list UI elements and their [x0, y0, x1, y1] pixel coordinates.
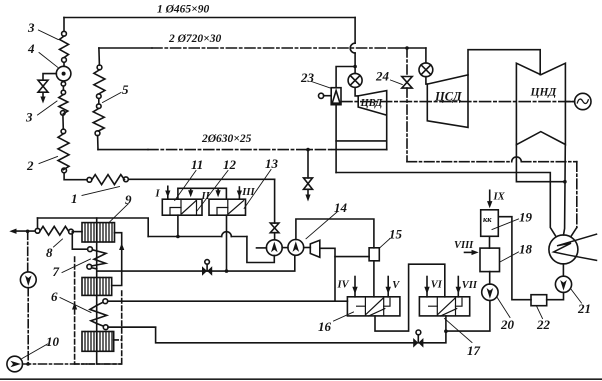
heater 9 hatched block	[82, 223, 115, 242]
element 5 lower zigzag	[93, 109, 104, 132]
leader label 3 upper	[38, 30, 58, 40]
wire feedwater vertical through heater group	[96, 218, 98, 364]
wire link to element 2	[62, 115, 64, 129]
wire reheat steam line 2	[99, 47, 152, 49]
element 8 zigzag	[40, 226, 69, 235]
condenser circle	[549, 235, 578, 264]
wire device 23 bypass drop	[335, 105, 337, 173]
arrow up on shell chain	[119, 243, 124, 250]
leader label 5	[103, 93, 122, 103]
element 7 zigzag	[92, 250, 107, 266]
wire IP stop valve to IP turbine	[426, 77, 427, 84]
node dot pump branch	[26, 230, 30, 234]
node circle bottom of element 6	[103, 325, 108, 330]
element 1 zigzag	[92, 175, 125, 185]
wire bypass branch to HP exhaust	[336, 140, 387, 142]
wire LP left downcomer	[516, 145, 563, 182]
wire heater 11 drain stub	[177, 215, 179, 236]
heater group bottom hatched block	[82, 332, 114, 352]
wire 15 bypass to trap shaft riser	[335, 256, 369, 258]
valve circle-X IP stop valve	[419, 63, 433, 77]
hop over line 2	[350, 43, 355, 53]
leader label 22	[537, 306, 543, 319]
leader label 6	[60, 298, 91, 313]
wire condensate line y179 to feed pump valve	[128, 178, 274, 180]
heater 16 tube diagonals	[366, 298, 385, 316]
stem of drain valve	[417, 335, 419, 343]
svg-text:2 Ø720×30: 2 Ø720×30	[168, 33, 221, 45]
wire main steam line 1	[64, 17, 355, 19]
turbine IP cylinder ЦСД	[427, 75, 468, 128]
element 5 upper zigzag	[94, 70, 105, 94]
heater 17 divider 1	[436, 297, 438, 316]
svg-text:9: 9	[125, 192, 132, 207]
wire junction to drain control valve	[423, 331, 446, 343]
wire shaft solid stub to generator	[565, 101, 574, 103]
svg-text:17: 17	[467, 343, 481, 358]
wire heater 9 shell right chain	[112, 233, 122, 286]
svg-text:3: 3	[25, 110, 33, 125]
leader label 21	[571, 289, 582, 304]
heater 17 baffles	[429, 298, 462, 306]
stem and actuator circle	[206, 264, 208, 271]
wire stub to bottom circle	[97, 324, 103, 327]
node dot header junction	[176, 235, 180, 239]
wire heater 12 drain	[226, 215, 228, 271]
wire drop to pump valve	[274, 179, 276, 223]
component 18 gland steam condenser	[480, 248, 500, 272]
wire valve 24 branch dash-dot down	[406, 48, 408, 77]
wire pump1 suction from drain header	[247, 237, 274, 263]
node dot heater 17 drain junction	[444, 329, 448, 333]
wire below PSB valve	[307, 189, 309, 195]
wire feedwater outlet line y218	[38, 218, 149, 237]
wire dashed bottom	[75, 363, 122, 365]
wire PSB branch down	[307, 150, 309, 178]
valve drain control filled bowtie	[413, 338, 423, 348]
node circle left of element 8	[35, 228, 40, 233]
valve bowtie on left branch	[38, 80, 48, 92]
arrow up on dashed bypass	[72, 303, 77, 310]
node circle middle2 of element 5	[97, 104, 102, 109]
arrow IX extraction	[489, 190, 491, 203]
element 6 zigzag	[90, 305, 107, 323]
wire condenser to pump 21	[562, 264, 564, 276]
arrow VI extraction	[426, 277, 428, 297]
wire drop element 5 to line 3	[97, 136, 99, 150]
wire 18 to pump 20	[489, 272, 491, 285]
component 15 feed valve	[369, 248, 379, 261]
svg-text:2: 2	[26, 158, 34, 173]
heater 16 HP heater body	[347, 297, 400, 316]
node circle stem end	[319, 93, 324, 98]
wire drive exhaust to heater 16 shell	[320, 248, 335, 301]
component 22 gland heater	[531, 295, 547, 306]
node dot PSB branch	[306, 148, 310, 152]
wire shaft stub left	[257, 247, 267, 249]
node circle bottom of element 2	[62, 168, 67, 173]
heater 17 tube diagonals	[438, 298, 457, 316]
turbine HP cylinder ЦВД	[358, 91, 387, 116]
svg-text:16: 16	[318, 319, 332, 334]
wire heater 17 drain	[445, 316, 447, 331]
wire branch left from element 4	[43, 74, 56, 81]
leader label 13	[244, 170, 271, 209]
wire drain line 9 shell to top of heater 16 line	[108, 300, 335, 302]
svg-text:ЦНД: ЦНД	[530, 87, 558, 99]
pump 2 feed pump	[288, 240, 304, 256]
valve bowtie above feed pump	[270, 223, 279, 233]
wire valve to pump 1	[274, 233, 276, 240]
wire drain element 6 to valve line	[108, 326, 156, 328]
leader label 8	[54, 239, 63, 247]
wire heater 16 drain U to heater 17 feed	[375, 264, 445, 331]
node dot condenser junction	[563, 180, 567, 184]
wire drop from line 1 to boiler chain	[63, 18, 65, 32]
node circle below element 4	[61, 82, 65, 86]
heater 11-12 dividers	[181, 199, 197, 215]
wire extraction II header	[178, 188, 227, 199]
leader label 7	[62, 259, 91, 273]
stem of device 23	[324, 95, 332, 97]
hop over LP downcomer	[512, 157, 522, 162]
leader label 3 lower	[38, 101, 58, 115]
leader label 4	[39, 53, 58, 68]
wire IP stop valve riser	[425, 48, 427, 63]
svg-text:24: 24	[375, 69, 390, 84]
wire LP drain line to pump 2 suction	[97, 255, 295, 271]
wire drain line to left heaters	[108, 327, 413, 343]
leader label 14	[306, 212, 337, 239]
leader label 16	[334, 312, 354, 321]
pump 20 circle	[482, 284, 498, 300]
wire dashed bypass left	[74, 257, 76, 364]
component 19 ejector KK	[481, 210, 499, 237]
node dot bottom junction	[26, 362, 30, 366]
condenser coil and cooling water	[554, 234, 597, 260]
node circle top of element 5	[97, 65, 102, 70]
svg-text:15: 15	[389, 227, 403, 242]
leader label 18	[500, 252, 519, 262]
leader label 24	[391, 80, 403, 85]
svg-text:13: 13	[265, 156, 279, 171]
wire heater 9 shell drain left link	[72, 232, 87, 250]
arrow VIII into 18	[465, 251, 474, 253]
svg-text:1 Ø465×90: 1 Ø465×90	[157, 4, 209, 16]
wire LP right downcomer to condenser	[564, 145, 566, 236]
leader label 9	[109, 204, 129, 223]
wire 19 to 18	[489, 236, 491, 248]
arrow II stubs	[190, 188, 192, 192]
wire stub to feed line	[92, 268, 97, 269]
svg-text:22: 22	[536, 317, 551, 332]
leader label 1	[82, 187, 120, 196]
wire cold reheat line 3	[98, 149, 148, 151]
wire bottom dash-dot line	[23, 363, 122, 365]
wire condensate dash-dot riser	[27, 231, 29, 272]
arrow V extraction	[387, 277, 389, 297]
node circle right of element 1	[124, 177, 129, 182]
wire drain header	[148, 236, 222, 238]
valve bowtie PSB	[304, 178, 313, 189]
wire shaft between pumps	[282, 247, 288, 249]
wire drop line2 to element 5	[98, 48, 101, 65]
valve filled bowtie on LP drain line	[202, 266, 212, 276]
leader label 2	[39, 157, 58, 164]
wire branch to device 23	[336, 67, 355, 88]
element 3 upper zigzag	[60, 36, 69, 58]
wire link to element 4	[63, 62, 65, 66]
node circle bottom of element 7	[87, 264, 92, 269]
wire element 8 to heater 9	[73, 231, 82, 233]
pump 1 feed pump	[266, 240, 282, 256]
node dot above HP stop valve	[353, 65, 357, 69]
valve circle-X HP stop valve	[348, 73, 362, 87]
node dot on LP drain line	[225, 269, 229, 273]
svg-text:19: 19	[519, 210, 533, 225]
pump circle on riser	[20, 272, 36, 288]
arrow VII extraction	[457, 277, 459, 297]
scan border bottom	[0, 378, 602, 380]
svg-text:кк: кк	[483, 214, 492, 224]
node circle top of element 6	[103, 299, 108, 304]
arrow feedwater out	[9, 229, 16, 234]
svg-text:8: 8	[46, 245, 53, 260]
svg-text:18: 18	[519, 242, 533, 257]
wire riser lower part	[27, 288, 29, 364]
node circle valve actuator	[416, 330, 421, 335]
leader label 20	[497, 298, 510, 318]
heater 11-12 baffle	[170, 208, 181, 215]
heater group 13 body	[209, 199, 246, 215]
node circle top of element 7	[88, 247, 93, 252]
heater 16 baffles	[357, 298, 390, 306]
wire shell chain dashed lower	[121, 291, 123, 364]
svg-text:7: 7	[53, 264, 60, 279]
node circle top of element 3a	[62, 31, 67, 36]
wire branch to heater 16 left	[335, 300, 347, 302]
svg-text:VII: VII	[462, 280, 478, 291]
svg-text:IV: IV	[337, 280, 350, 291]
wire link in element 5	[98, 99, 100, 104]
node circle bottom of element 3a	[62, 58, 67, 63]
node circle right of element 8	[69, 229, 74, 234]
heater 13 diagonal	[229, 201, 244, 214]
wire bypass 2 dash-dot down and right	[406, 88, 408, 162]
leader label 19	[492, 219, 519, 230]
svg-text:10: 10	[46, 334, 60, 349]
generator tilde	[577, 99, 588, 103]
wire drain line to condenser left funnel	[336, 173, 555, 236]
heater 16 divider 1	[364, 297, 366, 316]
arrow PSB exhaust down	[305, 195, 310, 202]
arrow IV extraction	[354, 277, 356, 297]
wire pump 20 down and left to junction	[448, 301, 490, 332]
svg-text:III: III	[241, 187, 255, 198]
svg-text:5: 5	[122, 82, 129, 97]
heater 13 baffle	[217, 208, 228, 215]
arrow III extraction	[238, 187, 240, 199]
wire feedwater arrow out left	[13, 230, 35, 232]
leader label 15	[379, 239, 390, 249]
heater 16 divider 2	[383, 297, 385, 316]
element 2 zigzag	[58, 134, 69, 170]
wire from element 2 to element 1	[64, 173, 87, 180]
wire corner down to zigzag 8	[37, 218, 39, 228]
wire below valve with drain arrow	[42, 92, 44, 98]
svg-text:3: 3	[27, 20, 35, 35]
node dot branch of valve 24	[405, 46, 409, 50]
hop over heater 12 drain	[222, 232, 232, 237]
device 23 control valve	[331, 88, 341, 105]
wire stop valve to HP turbine	[355, 87, 358, 96]
svg-text:1: 1	[71, 191, 78, 206]
turbine drive 14	[310, 240, 320, 257]
svg-text:IX: IX	[493, 192, 506, 203]
shaft line	[341, 101, 575, 103]
element 4 circle with dot	[56, 66, 71, 81]
wire shaft pump2 to turbine drive	[304, 247, 311, 249]
wire HP exhaust drop	[386, 115, 388, 149]
svg-text:21: 21	[577, 301, 591, 316]
heater 13 divider	[227, 199, 229, 215]
leader label 12	[197, 171, 228, 211]
svg-text:V: V	[392, 280, 400, 291]
valve 24 bowtie	[402, 77, 412, 89]
svg-text:6: 6	[51, 289, 58, 304]
svg-text:12: 12	[223, 157, 237, 172]
node circle middle of element 5	[97, 94, 102, 99]
node circle bottom of element 5	[95, 131, 100, 136]
svg-text:ЦВД: ЦВД	[360, 98, 384, 109]
svg-text:ЦСД: ЦСД	[434, 90, 462, 104]
leader label 23	[312, 82, 332, 89]
svg-text:II: II	[201, 191, 211, 202]
leader label 11	[175, 171, 196, 201]
heater group 11-12 body	[162, 199, 202, 215]
pump 21 circle	[555, 276, 571, 292]
wire line1 drop to HP stop valve with hop	[354, 18, 356, 44]
pump 10 circle	[7, 356, 23, 372]
svg-text:23: 23	[300, 70, 315, 85]
heater 17 HP heater body	[419, 297, 469, 316]
arrow I extraction	[167, 186, 169, 199]
svg-text:2Ø630×25: 2Ø630×25	[201, 133, 252, 145]
svg-text:VI: VI	[431, 280, 443, 291]
wire stub from feed line	[97, 302, 103, 305]
wire pump 21 to gland heater 22	[547, 292, 564, 299]
element 3 lower zigzag	[59, 95, 68, 114]
wire block3 stub	[114, 339, 122, 341]
heater group middle hatched block	[82, 278, 112, 296]
heater 11-12 diagonal	[182, 201, 196, 214]
turbine LP cylinder ЦНД	[516, 63, 565, 145]
arrow drain down	[40, 97, 45, 104]
leader label 10	[22, 344, 48, 359]
svg-text:VIII: VIII	[454, 240, 474, 251]
wire 22 to ejector cooler riser	[498, 217, 531, 300]
svg-text:11: 11	[191, 157, 203, 172]
node circle top of element 3b	[61, 90, 65, 94]
node circle left of element 1	[87, 177, 92, 182]
wire feed line pump 2 to 15 to heater 16	[296, 219, 374, 248]
svg-text:20: 20	[500, 317, 515, 332]
wire crossover pipe IP to LP	[468, 50, 540, 75]
node circle top of element 2	[61, 129, 66, 134]
wire link	[62, 86, 64, 90]
svg-text:4: 4	[27, 41, 35, 56]
heater 17 divider 2	[455, 297, 457, 316]
node circle bottom of element 3b	[61, 111, 66, 116]
leader label 17	[445, 319, 473, 343]
generator circle	[575, 93, 591, 109]
